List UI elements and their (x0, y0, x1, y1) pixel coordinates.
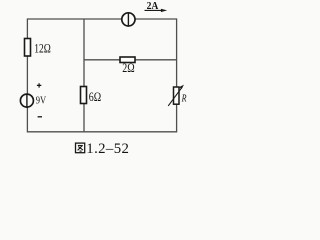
svg-text:R: R (181, 93, 187, 104)
svg-text:9V: 9V (36, 96, 47, 107)
svg-text:2Ω: 2Ω (122, 62, 134, 75)
svg-text:6Ω: 6Ω (89, 91, 101, 104)
svg-text:1.2–52: 1.2–52 (86, 141, 129, 157)
svg-text:12Ω: 12Ω (34, 43, 51, 57)
